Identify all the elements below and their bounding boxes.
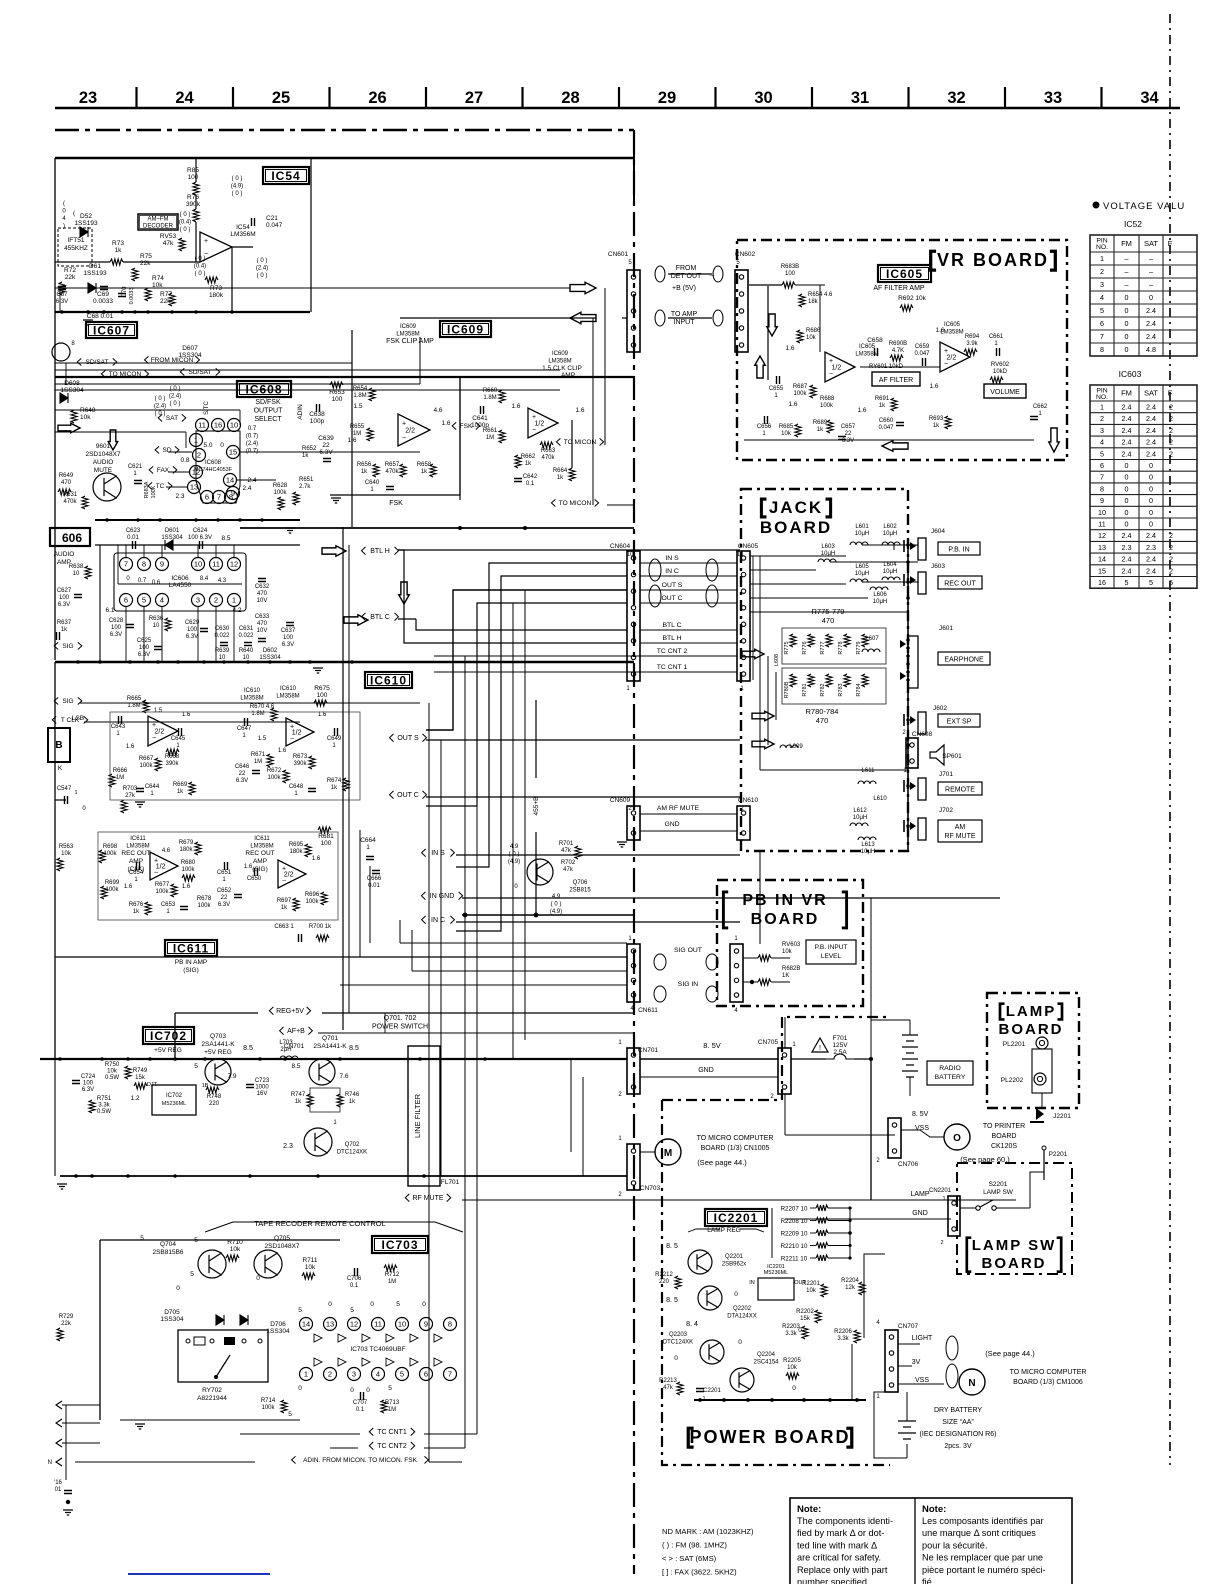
svg-text:12: 12	[350, 1320, 358, 1329]
svg-text:10V: 10V	[257, 628, 268, 634]
svg-text:C647: C647	[237, 726, 252, 732]
junction jack bus	[906, 678, 910, 682]
svg-text:C648: C648	[289, 784, 304, 790]
junction	[194, 310, 197, 313]
junction jack bus	[906, 543, 910, 547]
svg-text:100k: 100k	[197, 903, 211, 909]
junction	[126, 1057, 130, 1061]
block arrow jack b	[752, 711, 774, 720]
svg-text:C623: C623	[126, 528, 141, 534]
junction	[248, 1174, 252, 1178]
svg-text:OUT C: OUT C	[661, 595, 682, 602]
svg-text:C646: C646	[235, 764, 250, 770]
capacitor C666 symbol	[372, 871, 380, 874]
resistor R749 symbol	[134, 1083, 147, 1089]
resistor R686 symbol	[797, 330, 803, 343]
svg-text:2pcs. 3V: 2pcs. 3V	[944, 1443, 972, 1450]
svg-text:M: M	[664, 1148, 672, 1159]
IC608 body outline	[196, 431, 240, 503]
wire micon row2	[55, 383, 420, 385]
junction	[60, 310, 63, 313]
svg-text:R639: R639	[215, 648, 230, 654]
wire in c	[456, 921, 740, 923]
svg-text:12: 12	[230, 560, 238, 569]
resistor R687 symbol	[810, 385, 816, 398]
svg-text:NO.: NO.	[1096, 394, 1108, 401]
capacitor C724 symbol	[72, 1081, 80, 1084]
svg-text:1SS304: 1SS304	[178, 352, 202, 359]
resistor R657 symbol	[400, 464, 406, 477]
wire jack vert a	[759, 647, 761, 770]
resistor R664 symbol	[569, 468, 575, 481]
resistor R654 symbol	[369, 388, 375, 401]
svg-text:2SA1441-K: 2SA1441-K	[313, 1043, 347, 1050]
svg-text:10k: 10k	[107, 1069, 118, 1075]
svg-text:( ) : FM (98. 1MHZ): ( ) : FM (98. 1MHZ)	[662, 1541, 727, 1550]
svg-text:C649: C649	[327, 736, 342, 742]
svg-text:R699: R699	[105, 880, 120, 886]
svg-text:LM358M: LM358M	[396, 332, 419, 338]
svg-text:R697: R697	[277, 898, 292, 904]
svg-text:R656: R656	[357, 462, 372, 468]
svg-text:pièce portant le numéro spéci-: pièce portant le numéro spéci-	[922, 1565, 1046, 1575]
left edge chevron	[56, 1401, 62, 1409]
svg-text:Q705: Q705	[274, 1235, 290, 1242]
junction jack bus	[906, 560, 910, 564]
svg-text:LM358M: LM358M	[548, 359, 571, 365]
junction	[158, 518, 161, 521]
label EARPHONE box	[938, 652, 990, 665]
wire left v4	[117, 545, 119, 584]
wire to O	[920, 1130, 944, 1137]
svg-text:CN611: CN611	[638, 1007, 658, 1014]
pin 12	[228, 558, 241, 571]
svg-text:R667: R667	[139, 756, 154, 762]
svg-text:C656: C656	[757, 424, 772, 430]
svg-text:VOLTAGE VALU: VOLTAGE VALU	[1103, 201, 1185, 212]
svg-text:11: 11	[198, 421, 206, 430]
junction jack bus	[906, 638, 910, 642]
pin 5	[138, 594, 151, 607]
resistor R675 symbol	[314, 700, 327, 706]
wire to fuse	[791, 1058, 826, 1060]
junction	[202, 660, 206, 664]
svg-text:IC605: IC605	[944, 322, 961, 328]
wire det out	[668, 273, 712, 275]
wire amp in	[668, 317, 712, 319]
pin 8	[444, 1318, 457, 1331]
svg-text:7.6: 7.6	[339, 1073, 348, 1080]
svg-text:R778: R778	[838, 641, 844, 654]
junction	[105, 518, 108, 521]
svg-text:'16: '16	[54, 1480, 62, 1486]
wire lamp	[871, 1199, 951, 1201]
svg-text:TC CNT2: TC CNT2	[377, 1443, 407, 1450]
switch S2201	[976, 1206, 980, 1210]
svg-text:+: +	[204, 238, 208, 245]
wire 410 vert	[239, 410, 241, 425]
junction	[316, 1174, 320, 1178]
connector CN605	[737, 551, 750, 681]
wire left stub	[55, 799, 66, 801]
svg-text:–: –	[1149, 254, 1153, 263]
svg-text:0.1: 0.1	[526, 481, 535, 487]
svg-text:SP601: SP601	[942, 753, 962, 760]
junction	[176, 660, 180, 664]
svg-text:1.6: 1.6	[312, 856, 321, 862]
junction jack bus	[906, 670, 910, 674]
block arrow vr down	[767, 314, 778, 336]
svg-text:R702: R702	[561, 860, 576, 866]
note divider	[914, 1498, 916, 1584]
svg-text:22k: 22k	[61, 1321, 72, 1327]
svg-text:R672: R672	[267, 768, 282, 774]
resistor R653 symbol	[330, 382, 343, 388]
wire battery2 b	[906, 1444, 908, 1458]
svg-text:100: 100	[59, 595, 70, 601]
svg-text:1: 1	[74, 790, 77, 796]
svg-text:2.4: 2.4	[1146, 319, 1156, 328]
jack J702	[918, 818, 926, 840]
wire jack row3	[750, 583, 846, 585]
svg-text:ND MARK : AM (1023KHZ): ND MARK : AM (1023KHZ)	[662, 1527, 754, 1536]
svg-text:( 0 ): ( 0 )	[155, 411, 166, 417]
svg-text:1: 1	[942, 1196, 945, 1202]
svg-text:0: 0	[176, 1285, 180, 1292]
svg-text:SIG IN: SIG IN	[678, 981, 698, 988]
wire micon row3	[230, 369, 560, 371]
pin 16	[212, 419, 225, 432]
pin 11	[210, 558, 223, 571]
svg-text:1.6: 1.6	[929, 383, 938, 390]
svg-text:1: 1	[304, 1370, 308, 1379]
svg-text:D602: D602	[263, 648, 278, 654]
wire	[399, 920, 401, 943]
ground IC608	[285, 528, 295, 533]
svg-text:1.8M: 1.8M	[483, 395, 496, 401]
wire right vert upper	[870, 898, 872, 1059]
svg-text:390k: 390k	[293, 761, 307, 767]
svg-text:C632: C632	[255, 584, 270, 590]
svg-text:2: 2	[214, 596, 218, 605]
svg-text:180k: 180k	[179, 847, 193, 853]
wire TC CNT 1	[640, 671, 737, 673]
jack J603	[918, 572, 926, 594]
svg-text:390k: 390k	[186, 201, 201, 208]
pin 8	[225, 491, 238, 504]
svg-text:IC611: IC611	[130, 836, 146, 842]
pin 1	[228, 594, 241, 607]
block arrow jack c	[752, 739, 774, 748]
svg-text:OUT C: OUT C	[397, 792, 419, 799]
blue reference line	[128, 1573, 270, 1575]
svg-text:IC610: IC610	[280, 686, 297, 692]
svg-text:GND: GND	[664, 821, 679, 828]
junction	[458, 526, 462, 530]
block arrow btl h	[322, 546, 346, 557]
svg-text:11: 11	[1098, 519, 1105, 528]
svg-text:R2209 10: R2209 10	[781, 1231, 808, 1238]
POWER board outline	[662, 1017, 890, 1465]
loop from det out	[655, 266, 665, 282]
svg-text:R679: R679	[179, 840, 194, 846]
svg-text:FROM: FROM	[676, 265, 697, 272]
junction	[74, 1174, 78, 1178]
svg-text:LIGHT: LIGHT	[912, 1335, 933, 1342]
svg-text:2.4: 2.4	[1122, 449, 1132, 458]
pin 5	[396, 1368, 409, 1381]
wire	[627, 1151, 640, 1153]
svg-text:10kD: 10kD	[993, 369, 1008, 375]
inductor L612 symbol	[850, 823, 868, 826]
block arrow vr bottom	[1049, 428, 1060, 452]
junction	[848, 1244, 851, 1247]
label P.B. INPUT LEVEL box	[806, 940, 856, 964]
svg-text:16V: 16V	[257, 1091, 268, 1097]
svg-text:CN703: CN703	[640, 1185, 661, 1192]
svg-text:R638: R638	[69, 564, 84, 570]
wire pin stub top	[197, 545, 199, 557]
JACK board outline	[741, 489, 908, 851]
svg-text:Note:: Note:	[922, 1504, 946, 1515]
svg-text:DECODER: DECODER	[143, 224, 174, 230]
wire vr bottom	[744, 439, 1034, 441]
resistor R668 symbol	[166, 749, 179, 755]
svg-text:0.5W: 0.5W	[105, 1075, 119, 1081]
svg-text:R666: R666	[113, 768, 128, 774]
svg-text:2SD1048X7: 2SD1048X7	[85, 451, 120, 458]
pin 12	[190, 466, 203, 479]
svg-text:4.7K: 4.7K	[892, 348, 904, 354]
svg-text:1.6: 1.6	[278, 748, 287, 754]
wire riser d	[524, 590, 526, 1040]
svg-text:R694: R694	[965, 334, 980, 340]
wire pin stub bottom	[125, 607, 127, 662]
wire	[743, 981, 758, 983]
svg-text:( 0 ): ( 0 )	[232, 176, 243, 182]
label IC2201	[705, 1209, 767, 1226]
svg-text:5: 5	[388, 1385, 392, 1392]
svg-text:0: 0	[1149, 293, 1153, 302]
resistor R676 symbol	[145, 902, 151, 915]
svg-text:0.0033: 0.0033	[129, 288, 135, 305]
wire out s	[426, 739, 740, 741]
svg-text:( 0 ): ( 0 )	[257, 258, 268, 264]
svg-text:PB IN AMP: PB IN AMP	[175, 959, 208, 966]
svg-text:1K: 1K	[782, 973, 789, 979]
junction	[146, 310, 149, 313]
resistor R703 symbol	[121, 800, 127, 813]
wire gnd lamp	[785, 1218, 951, 1220]
grid tick	[521, 87, 523, 107]
svg-text:R2213: R2213	[659, 1378, 677, 1384]
svg-text:R669: R669	[173, 782, 188, 788]
resistor R72 symbol	[59, 282, 65, 295]
svg-text:C633: C633	[255, 614, 270, 620]
capacitor C661 symbol	[997, 348, 1000, 356]
ground IC702	[57, 1184, 67, 1189]
svg-text:–: –	[1149, 267, 1153, 276]
svg-text:1SS304: 1SS304	[266, 1328, 290, 1335]
svg-text:1.5: 1.5	[258, 736, 267, 742]
svg-text:8: 8	[142, 560, 146, 569]
svg-text:3: 3	[1100, 280, 1104, 289]
svg-text:R698: R698	[103, 844, 118, 850]
block arrow down mid	[399, 582, 410, 604]
svg-text:ADIN. FROM MICON. TO MICON. FS: ADIN. FROM MICON. TO MICON. FSK	[303, 1457, 418, 1464]
wire	[640, 575, 648, 577]
wire tc cnt1 lbl	[240, 1433, 360, 1435]
svg-text:100: 100	[321, 840, 332, 847]
partial box B	[48, 728, 70, 762]
pin 10	[192, 558, 205, 571]
resistor R667 symbol	[155, 758, 161, 771]
svg-text:10k: 10k	[782, 949, 793, 955]
svg-text:34: 34	[1140, 89, 1159, 107]
svg-text:R780-784: R780-784	[806, 707, 839, 716]
ground CN609	[617, 842, 627, 847]
svg-text:LM358M: LM358M	[240, 696, 263, 702]
svg-text:1k: 1k	[557, 475, 564, 481]
svg-text:220: 220	[209, 1101, 220, 1107]
capacitor C639 symbol	[323, 459, 331, 462]
resistor R648 symbol	[71, 410, 77, 423]
wire	[175, 1012, 310, 1014]
pin 7	[120, 558, 133, 571]
svg-text:F: F	[1168, 239, 1173, 248]
svg-text:5: 5	[194, 1063, 198, 1070]
svg-text:A8221944: A8221944	[197, 1395, 227, 1402]
svg-text:2.4: 2.4	[1122, 438, 1132, 447]
transistor Q601 symbol	[93, 473, 121, 501]
fuse F701 symbol	[826, 1054, 854, 1059]
connector CN707	[885, 1330, 898, 1392]
svg-text:2SB962x: 2SB962x	[722, 1262, 746, 1268]
svg-text:RV53: RV53	[160, 233, 177, 240]
wire left edge vert	[65, 1405, 67, 1480]
svg-text:3.3k: 3.3k	[837, 1336, 849, 1342]
inductor L606 symbol	[870, 587, 888, 590]
pin 3	[348, 1368, 361, 1381]
svg-text:FAX: FAX	[157, 467, 170, 474]
svg-text:R649: R649	[59, 473, 74, 479]
svg-text:R693: R693	[929, 416, 944, 422]
svg-text:R688: R688	[820, 396, 835, 402]
op-amp IC605b triangle	[940, 342, 970, 372]
svg-text:C639: C639	[318, 435, 334, 442]
svg-text:0: 0	[298, 1385, 302, 1392]
svg-text:J702: J702	[939, 807, 953, 814]
svg-text:IN GND: IN GND	[430, 893, 455, 900]
label AF FILTER box	[872, 372, 920, 386]
resistor R631 symbol	[82, 496, 88, 509]
resistor R2205 symbol	[854, 1330, 860, 1343]
wire 410 row	[55, 409, 240, 411]
svg-text:2.3: 2.3	[1122, 543, 1132, 552]
transistor Q2201	[688, 1250, 712, 1274]
svg-text:+: +	[154, 857, 158, 864]
svg-text:L611: L611	[862, 768, 876, 774]
grid tick	[1100, 87, 1102, 107]
svg-text:IC609: IC609	[447, 322, 484, 336]
svg-text:100k: 100k	[181, 867, 195, 873]
svg-text:C621: C621	[128, 464, 143, 470]
wire vr in	[749, 284, 782, 286]
svg-text:14: 14	[1098, 555, 1106, 564]
bus thin a	[55, 369, 300, 371]
svg-text:Q701: Q701	[322, 1035, 338, 1042]
svg-text:2: 2	[1169, 566, 1173, 575]
resistor R85 symbol	[193, 182, 199, 195]
svg-text:C657: C657	[841, 424, 856, 430]
resistor R779 symbol	[862, 634, 868, 647]
wire	[633, 505, 635, 944]
jack J701	[918, 778, 926, 800]
grid tick	[1004, 87, 1006, 107]
svg-text:8: 8	[229, 493, 233, 502]
svg-text:IC54: IC54	[236, 224, 250, 231]
resistor R689 symbol	[827, 420, 833, 433]
wire reg5v down	[174, 1013, 176, 1059]
svg-text:2.4: 2.4	[1146, 566, 1156, 575]
svg-text:C659: C659	[915, 344, 930, 350]
inverter symbol	[386, 1334, 394, 1342]
svg-text:FM: FM	[1121, 389, 1132, 398]
inverter symbol b	[410, 1358, 418, 1366]
junction jack bus	[906, 784, 910, 788]
label AM-FM DECODER	[138, 214, 178, 230]
svg-text:J701: J701	[939, 771, 953, 778]
svg-text:R784: R784	[856, 683, 862, 696]
svg-text:R85: R85	[187, 167, 199, 174]
wire jack vert b	[767, 656, 769, 745]
wire junction	[195, 237, 197, 262]
wire BTL C route	[416, 619, 627, 630]
svg-text:RV603: RV603	[782, 942, 801, 948]
wire micon row4	[310, 389, 560, 391]
inductor L609 symbol	[780, 745, 798, 748]
resistor R782 symbol	[826, 674, 832, 687]
VR board outline	[737, 240, 1067, 460]
svg-text:2.4: 2.4	[1122, 555, 1132, 564]
connector CN604	[627, 551, 640, 681]
svg-text:+: +	[944, 348, 948, 355]
svg-text:L606: L606	[873, 592, 887, 598]
svg-text:R662: R662	[521, 454, 536, 460]
svg-text:47k: 47k	[563, 867, 574, 873]
svg-text:2.3: 2.3	[175, 493, 184, 500]
wire afb vert	[384, 1013, 386, 1033]
ground bottom left	[63, 1510, 73, 1515]
resistor R700 symbol	[316, 935, 329, 941]
junction	[288, 660, 292, 664]
connector CN705	[778, 1048, 791, 1094]
svg-text:R2208 10: R2208 10	[781, 1218, 808, 1225]
svg-text:LAMP SW: LAMP SW	[983, 1189, 1014, 1196]
svg-text:0: 0	[366, 1387, 370, 1394]
block arrow vr left	[882, 441, 908, 452]
inverter symbol	[362, 1334, 370, 1342]
junction	[148, 1057, 152, 1061]
svg-text:R658: R658	[417, 462, 432, 468]
wire	[893, 545, 895, 550]
svg-text:0.1: 0.1	[356, 1407, 365, 1413]
wire battery down	[909, 1077, 911, 1096]
op-amp IC605a triangle	[825, 352, 855, 382]
svg-text:18k: 18k	[808, 299, 819, 305]
svg-text:390k: 390k	[165, 761, 179, 767]
svg-text:470: 470	[257, 621, 268, 627]
